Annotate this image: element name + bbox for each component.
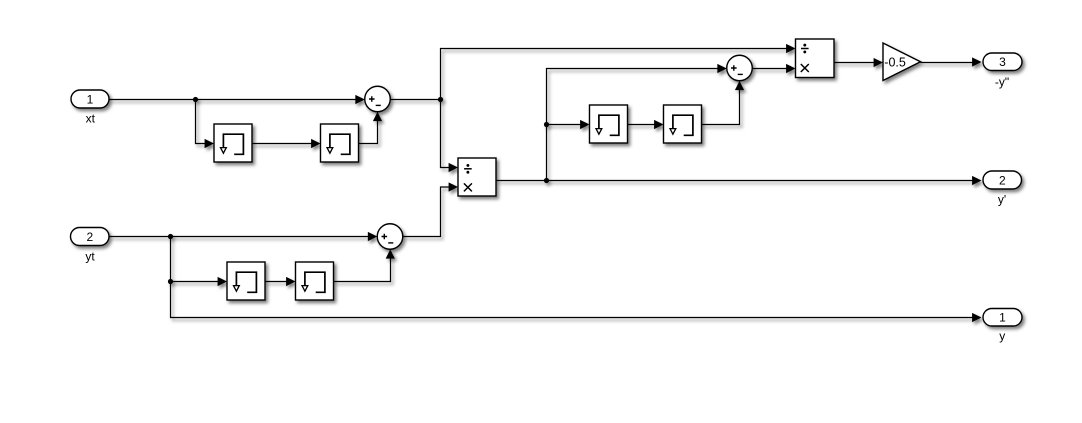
svg-text:2: 2 xyxy=(86,230,93,244)
inport 2 (yt) xyxy=(71,228,110,246)
memory block Memory E xyxy=(590,105,628,143)
wire Divide1 to outport y' xyxy=(496,176,982,185)
memory block Memory D xyxy=(296,262,334,300)
sum block Sum1 xyxy=(365,86,391,112)
wire junction up to Sum2 left input xyxy=(547,64,727,181)
wire Divide2 to Gain xyxy=(834,58,883,67)
wire junction to Memory E xyxy=(547,120,590,129)
svg-text:y: y xyxy=(999,329,1005,343)
wire Sum1 to junction xyxy=(390,99,440,101)
outport 1 (y) xyxy=(983,309,1022,327)
svg-text:3: 3 xyxy=(999,55,1006,69)
wire junction down to Memory A xyxy=(196,100,215,149)
node junction on yt wire xyxy=(168,234,173,239)
divide block Divide1 xyxy=(458,158,496,196)
wire Memory D to Sum3 bottom xyxy=(334,249,395,281)
sum block Sum3 xyxy=(377,224,403,250)
wire Sum2 to Divide2 input2 xyxy=(752,64,795,73)
divide block Divide2 xyxy=(796,39,835,78)
memory block Memory F xyxy=(664,105,702,143)
wire junction to Memory C xyxy=(171,277,228,286)
svg-text:1: 1 xyxy=(87,92,94,106)
wire Memory C to Memory D xyxy=(265,277,296,286)
wire Gain to outport 3 xyxy=(921,57,982,66)
wire junction down the left branch xyxy=(170,237,172,318)
memory block Memory B xyxy=(321,124,359,162)
wire Sum3 to Divide1 input2 xyxy=(403,182,458,236)
wire Memory A to Memory B xyxy=(252,139,321,148)
node junction Divide1 output xyxy=(544,178,549,183)
svg-text:y': y' xyxy=(998,193,1006,207)
wire yt to Sum3 xyxy=(109,232,377,241)
memory block Memory A xyxy=(214,124,252,162)
svg-text:-0.5: -0.5 xyxy=(884,56,906,70)
wire junction down to Divide1 input1 xyxy=(441,100,459,173)
node junction Sum1 output xyxy=(438,97,443,102)
svg-text:-y": -y" xyxy=(995,75,1009,89)
outport 3 (-y&quot;) xyxy=(983,53,1022,71)
node junction on xt wire xyxy=(193,97,198,102)
wire lower-left branch to outport 1 xyxy=(170,313,982,322)
svg-text:1: 1 xyxy=(999,311,1006,325)
node junction lower left xyxy=(168,279,173,284)
svg-text:yt: yt xyxy=(85,249,95,263)
gain block -0.5 xyxy=(883,43,921,81)
inport 1 (xt) xyxy=(71,90,109,108)
node junction on vertical branch xyxy=(544,122,549,127)
wire Memory E to Memory F xyxy=(628,120,664,129)
svg-text:2: 2 xyxy=(999,174,1006,188)
wire xt to Sum1 xyxy=(109,95,365,104)
outport 2 (y') xyxy=(983,171,1022,189)
sum block Sum2 xyxy=(727,55,753,81)
memory block Memory C xyxy=(227,262,265,300)
wire junction up to Divide2 input1 xyxy=(441,44,796,100)
wire Memory B to Sum1 bottom xyxy=(359,112,382,144)
wire Memory F to Sum2 bottom xyxy=(702,81,745,125)
svg-text:xt: xt xyxy=(86,112,96,126)
